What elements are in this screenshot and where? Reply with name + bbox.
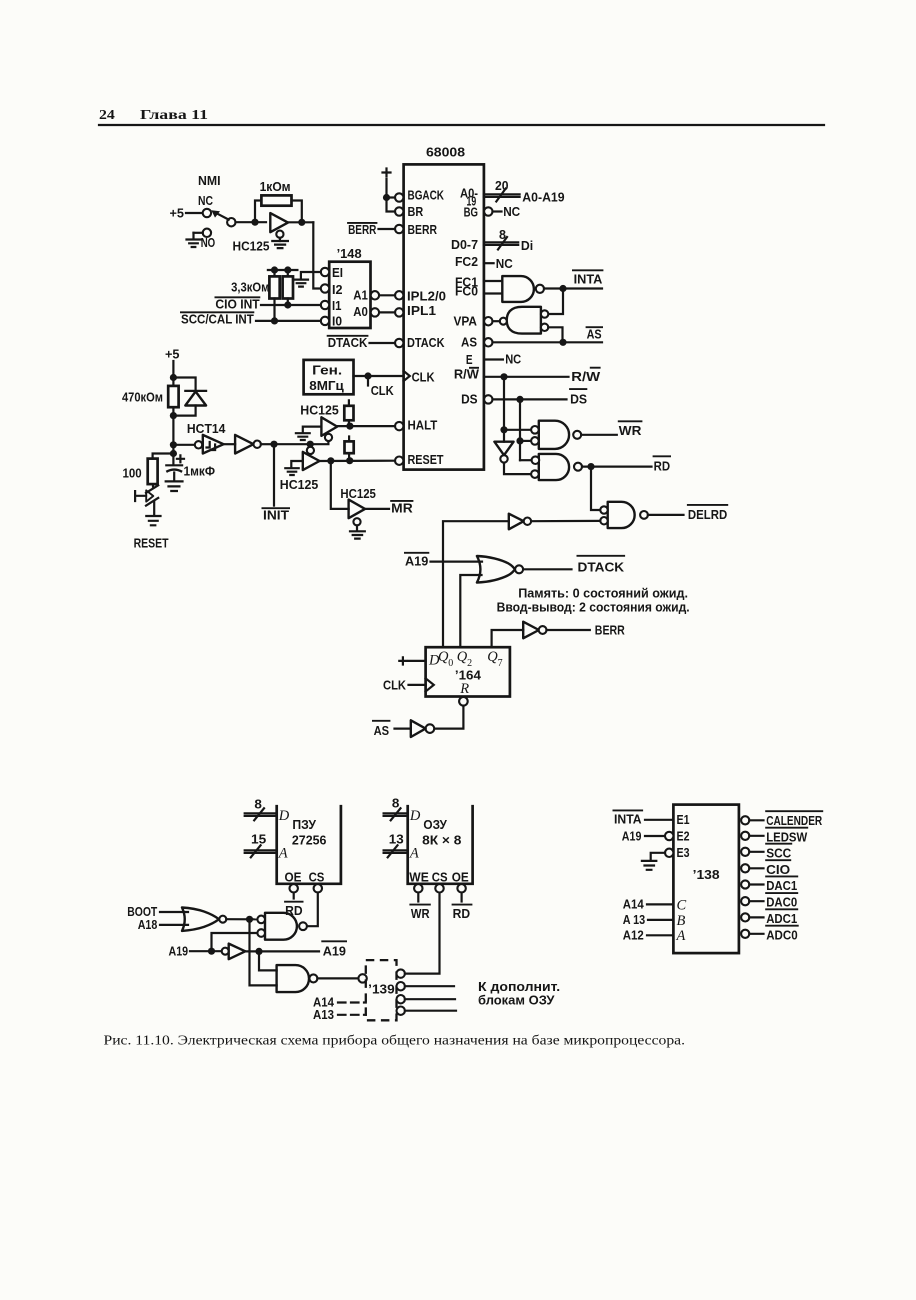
pin DTACK bubble: [395, 339, 403, 347]
svg-text:DS: DS: [461, 391, 478, 406]
svg-text:A18: A18: [138, 917, 158, 932]
node I1/R3: [284, 301, 291, 308]
svg-text:R/W: R/W: [571, 369, 600, 384]
pin HALT bubble: [395, 422, 403, 430]
node A19bar: [255, 948, 262, 955]
wire '139 out4: [405, 1010, 456, 1012]
pin Y5 bubble: [741, 897, 749, 905]
pin DS bubble: [484, 395, 492, 403]
svg-text:+5: +5: [170, 206, 185, 221]
node AS: [559, 339, 566, 346]
U24 output bubble 2: [397, 982, 405, 990]
svg-text:NC: NC: [496, 256, 513, 271]
svg-text:3,3кОм: 3,3кОм: [231, 280, 269, 295]
wire node chain down: [172, 416, 174, 465]
svg-text:E: E: [466, 352, 473, 367]
wire DS: [493, 398, 567, 400]
ground (C1): [166, 481, 183, 491]
resistor R6 leads: [348, 400, 350, 426]
svg-text:WR: WR: [411, 906, 430, 921]
op: CPU U1 68008 body: [404, 164, 484, 469]
node to 100/cap: [170, 450, 177, 457]
svg-text:EI: EI: [332, 265, 343, 280]
svg-text:VPA: VPA: [454, 314, 478, 329]
wire G1 to CLK: [354, 375, 402, 377]
buffer U7 triangle: [303, 452, 320, 470]
pin IPL1 bubble: [395, 308, 403, 316]
resistor R1 1kOm leads: [255, 201, 302, 223]
pin RESET bubble: [395, 457, 403, 465]
resistor R5 100 body: [148, 459, 158, 485]
svg-text:R: R: [459, 681, 469, 697]
svg-text:BG: BG: [464, 204, 478, 219]
svg-text:DTACK: DTACK: [328, 335, 368, 350]
node buffer output: [298, 219, 305, 226]
pin Y4 bubble: [741, 880, 749, 888]
pin WE bubble: [414, 884, 422, 892]
ROM D1 ПЗУ 27256 body (open top): [277, 805, 341, 884]
wire OE stub: [293, 893, 295, 899]
svg-text:WE: WE: [409, 869, 429, 884]
svg-text:CLK: CLK: [412, 369, 435, 384]
buffer U6 input to ground: [303, 427, 322, 433]
diode VD1 cathode bar: [185, 390, 206, 392]
wire FC2-NC: [484, 262, 494, 264]
svg-text:ADC0: ADC0: [766, 927, 798, 942]
wire U6 output to HALT: [337, 425, 395, 427]
node ROM sel: [246, 916, 253, 923]
resistor R3 3,3кОм body: [283, 276, 293, 298]
svg-text:BERR: BERR: [348, 222, 377, 237]
wire Y2: [749, 851, 763, 853]
pin Y6 bubble: [741, 913, 749, 921]
pin I2 bubble: [321, 284, 329, 292]
bus slash (A): [496, 189, 505, 202]
ground (U2 enable): [272, 241, 288, 248]
node R/W to WR gate: [500, 426, 507, 433]
encoder U3 '148 body: [329, 262, 370, 328]
svg-text:15: 15: [251, 832, 266, 847]
U9 output bubble: [536, 285, 544, 293]
svg-text:ОЗУ: ОЗУ: [423, 817, 447, 832]
svg-text:A0-A19: A0-A19: [522, 190, 564, 205]
nand gate U12 (WR): [539, 421, 569, 449]
RAM D2 ОЗУ body (open top): [408, 805, 473, 884]
svg-text:HALT: HALT: [408, 417, 438, 432]
switch SA1 blade with arrow: [215, 212, 229, 219]
wire Q7 to BERR inverter: [492, 630, 524, 647]
U24 output bubble 3: [397, 995, 405, 1003]
wire A19 to inverter: [190, 950, 222, 952]
wire DTACK: [523, 568, 571, 570]
pin Y7 bubble: [741, 930, 749, 938]
wire INTA to E1: [645, 819, 673, 821]
svg-text:’148: ’148: [337, 246, 362, 261]
buffer U8 enable bubble: [353, 518, 360, 525]
svg-text:INTA: INTA: [614, 812, 642, 827]
U17 output bubble: [539, 626, 547, 634]
wire CLK to '164: [409, 684, 426, 686]
pin IPL2/0 bubble: [395, 291, 403, 299]
resistor R2 3,3кОм body: [269, 276, 279, 298]
wire Y3: [749, 867, 763, 869]
ground (NO): [187, 240, 201, 248]
svg-text:BGACK: BGACK: [408, 188, 445, 203]
CLK tick: [367, 376, 369, 386]
capacitor C1 top plate: [166, 464, 182, 466]
node I0/R2: [271, 317, 278, 324]
svg-text:CLK: CLK: [383, 677, 406, 692]
node HALT/R6: [346, 423, 353, 430]
wire enable to ground: [279, 238, 281, 241]
U21 output bubble: [299, 922, 307, 930]
svg-text:DAC1: DAC1: [766, 878, 797, 893]
wire A19bar to U23 top input: [259, 951, 277, 970]
resistor R4 470кОм body: [168, 386, 178, 407]
svg-text:OE: OE: [285, 869, 302, 884]
svg-text:CIO: CIO: [766, 862, 790, 877]
pin Y2 bubble: [741, 848, 749, 856]
node RD: [587, 463, 594, 470]
resistor R7 leads: [348, 437, 350, 461]
wire Y7: [749, 933, 763, 935]
pin Y3 bubble: [741, 864, 749, 872]
pin BERR bubble: [395, 225, 403, 233]
pin OE bubble (RAM): [457, 884, 465, 892]
node CLK: [364, 372, 371, 379]
svg-text:HC125: HC125: [233, 239, 270, 254]
and gate U10 (VPA, mirrored): [507, 307, 541, 334]
svg-text:Память: 0 состояний ожид.: Память: 0 состояний ожид.: [518, 585, 688, 600]
U14 input bubble bottom: [600, 517, 607, 524]
ground (EI): [294, 280, 308, 287]
svg-text:NC: NC: [198, 193, 213, 208]
svg-text:+5: +5: [165, 347, 180, 362]
svg-text:DS: DS: [570, 391, 587, 406]
svg-text:A 13: A 13: [623, 912, 646, 927]
svg-text:1мкФ: 1мкФ: [184, 464, 216, 479]
wire node to R5: [153, 454, 174, 459]
svg-text:CS: CS: [309, 869, 325, 884]
buffer U7 input to ground: [291, 461, 303, 468]
inverter U4 HCT14 input bubble: [195, 441, 202, 448]
U15 output bubble: [524, 518, 531, 525]
bus slash (RAM D): [391, 808, 401, 820]
diode VD1 triangle: [185, 392, 206, 406]
pin VPA bubble: [484, 317, 492, 325]
node DS: [516, 396, 523, 403]
wire INTA: [544, 287, 602, 289]
wire R to AS inverter: [434, 706, 463, 729]
wire +5 down: [172, 361, 174, 386]
wire DS vertical: [519, 399, 521, 460]
wire RD: [582, 466, 652, 468]
capacitor C1 bottom plate: [166, 470, 182, 472]
wire EI to ground: [301, 272, 321, 279]
inverter U4 hysteresis mark: [207, 442, 216, 450]
buffer U6 triangle: [321, 417, 337, 436]
thyristor VS1 cathode: [153, 501, 155, 515]
wire A14 to C: [647, 903, 673, 905]
svg-text:DTACK: DTACK: [578, 560, 625, 575]
U12 input bubble top: [531, 426, 539, 434]
svg-text:AS: AS: [374, 723, 390, 738]
U21 input bubble top: [257, 916, 265, 924]
wire C1 to ground: [173, 473, 175, 481]
pullup rail: [268, 269, 298, 271]
nand gate U13 (RD): [539, 454, 569, 480]
svg-text:A19: A19: [405, 554, 428, 569]
wire + to D: [409, 660, 426, 662]
thyristor VS1 gate lead: [135, 491, 146, 501]
inverter U19 triangle: [411, 720, 426, 737]
U20 output bubble: [219, 916, 226, 923]
wire U20 out to U21: [226, 918, 257, 920]
svg-text:A12: A12: [623, 928, 644, 943]
wire U7 output to RESET: [320, 460, 396, 462]
pin BR bubble: [395, 207, 403, 215]
switch SA1 NC contact: [203, 209, 211, 217]
node rail R2: [271, 266, 278, 273]
svg-text:WR: WR: [619, 423, 642, 438]
wire Y6: [749, 916, 763, 918]
wire E3 to ground: [651, 853, 665, 860]
node MR takeoff: [327, 457, 334, 464]
U10 input bubble bottom: [541, 324, 548, 331]
resistor R6 pullup body: [344, 406, 353, 421]
wire switch common to node: [236, 221, 267, 223]
node BGACK: [383, 194, 390, 201]
svg-text:A1: A1: [353, 287, 368, 302]
shift register U18 '164 body: [426, 647, 510, 696]
wire +5 to NC contact: [186, 212, 203, 214]
wire + to BGACK/BR: [387, 179, 396, 212]
or gate U20 (BOOT+A18): [182, 908, 219, 931]
svg-text:Ввод-вывод: 2 состояния ожид.: Ввод-вывод: 2 состояния ожид.: [497, 599, 690, 614]
svg-text:27256: 27256: [292, 832, 327, 847]
header rule: [99, 124, 824, 126]
pin CLK clock wedge: [404, 371, 410, 381]
svg-text:INTA: INTA: [574, 272, 603, 287]
wire buffer output node: [288, 221, 313, 223]
wire CS to gate: [307, 893, 318, 927]
nand gate U23 (RAM sel): [277, 965, 309, 992]
wire E-NC: [485, 358, 503, 360]
ground (U8): [350, 531, 365, 538]
svg-text:Ген.: Ген.: [312, 362, 342, 377]
svg-text:Рис. 11.10. Электрическая схем: Рис. 11.10. Электрическая схема прибора …: [104, 1033, 686, 1048]
svg-text:NC: NC: [505, 352, 521, 367]
wire Q2 to OR bottom input: [460, 575, 481, 647]
svg-text:OE: OE: [452, 869, 469, 884]
svg-text:HC125: HC125: [280, 477, 319, 492]
svg-text:24: 24: [99, 107, 115, 122]
wire U22 out to A19bar: [245, 950, 319, 952]
wire FC1 to gate: [484, 280, 502, 282]
svg-text:13: 13: [389, 832, 404, 847]
svg-text:A: A: [676, 928, 686, 944]
wire BERR to pin: [379, 228, 396, 230]
U14 output bubble: [640, 511, 648, 519]
svg-text:Di: Di: [521, 238, 533, 253]
switch SA1 common contact: [227, 218, 235, 226]
pin R bubble: [459, 697, 468, 706]
svg-text:E2: E2: [677, 828, 690, 843]
wire U5 output to INIT node: [261, 443, 274, 445]
power + (D input): [399, 657, 406, 664]
svg-text:20: 20: [495, 178, 509, 193]
svg-text:A13: A13: [313, 1007, 334, 1022]
wire DELRD: [648, 514, 684, 516]
svg-text:1кОм: 1кОм: [260, 179, 291, 194]
wire Y1: [749, 835, 763, 837]
svg-text:CLK: CLK: [371, 383, 394, 398]
wire SCC/CAL INT to I0: [256, 320, 321, 322]
svg-text:AS: AS: [587, 326, 602, 341]
wire U11 to RD gate bottom input: [504, 463, 531, 475]
svg-text:I1: I1: [332, 298, 342, 313]
inverter U5 output bubble: [254, 441, 261, 448]
svg-text:’138: ’138: [693, 867, 720, 882]
pin AS bubble: [484, 338, 492, 346]
wire A19 to OR gate: [431, 560, 483, 562]
wire MR branch down: [331, 461, 349, 509]
thyristor VS1 lead: [152, 484, 154, 486]
svg-text:LEDSW: LEDSW: [766, 829, 807, 844]
wire A13 to B: [648, 919, 673, 921]
ground (VS1): [146, 516, 160, 525]
wire U15 output to U14 input: [531, 520, 600, 522]
U10 output bubble: [500, 318, 507, 325]
inverter U22 input bubble: [222, 948, 229, 955]
node below R4: [170, 412, 177, 419]
decoder U25 '138 body: [673, 805, 739, 954]
svg-text:SCC/CAL INT: SCC/CAL INT: [181, 311, 254, 326]
svg-text:D: D: [278, 808, 290, 824]
svg-text:Глава 11: Глава 11: [140, 107, 208, 122]
svg-text:IPL1: IPL1: [407, 303, 436, 318]
wire U4 to U5: [224, 443, 236, 445]
pin EI bubble: [321, 268, 329, 276]
svg-text:NMI: NMI: [198, 173, 221, 188]
node DS to WR gate: [516, 437, 523, 444]
svg-text:470кОм: 470кОм: [122, 389, 163, 404]
U12 input bubble bottom: [531, 437, 539, 445]
svg-text:RD: RD: [453, 906, 471, 921]
wire '139 out3: [405, 998, 455, 1000]
pin BGACK bubble: [395, 193, 403, 201]
ground (E3): [642, 861, 656, 870]
node INIT: [270, 441, 277, 448]
svg-text:CALENDER: CALENDER: [766, 813, 822, 828]
svg-text:8МГц: 8МГц: [309, 378, 344, 393]
svg-text:A19: A19: [169, 944, 189, 959]
svg-text:B: B: [677, 913, 686, 929]
ground (U7 input): [285, 468, 298, 475]
svg-text:I2: I2: [332, 282, 343, 297]
svg-text:100: 100: [123, 465, 142, 480]
wire node to WR top input: [504, 429, 531, 431]
svg-text:FC2: FC2: [455, 254, 478, 269]
inverter U22 triangle: [229, 944, 246, 960]
wire DTACK to pin: [370, 342, 396, 344]
svg-text:ПЗУ: ПЗУ: [292, 817, 316, 832]
svg-text:FC0: FC0: [455, 283, 478, 298]
wire U21 bottom input to A19 node: [212, 933, 258, 951]
wire CIO INT to I1: [261, 304, 321, 306]
wire A18 input: [160, 924, 188, 926]
svg-text:’139: ’139: [368, 981, 395, 996]
dashed wire A14: [338, 1001, 366, 1003]
wire A19 to E2: [645, 835, 665, 837]
buffer U8 triangle: [349, 500, 365, 519]
buffer U2 enable bubble: [276, 231, 283, 238]
inverter U17 triangle: [523, 622, 539, 639]
wire Y5: [749, 900, 763, 902]
switch SA1 NO contact: [203, 229, 211, 237]
wire WR: [581, 434, 617, 436]
svg-text:IPL2/0: IPL2/0: [407, 289, 446, 304]
resistor R4 bottom lead: [172, 407, 174, 415]
U13 output bubble: [574, 463, 582, 471]
svg-text:RD: RD: [654, 458, 671, 473]
svg-text:MR: MR: [391, 500, 413, 515]
nand gate U9 (INTA): [502, 276, 534, 302]
wire A0 to IPL1: [379, 311, 395, 313]
svg-text:8К × 8: 8К × 8: [422, 833, 461, 848]
svg-text:RESET: RESET: [134, 535, 169, 550]
node INIT/enable2: [307, 441, 314, 448]
svg-text:DAC0: DAC0: [766, 895, 797, 910]
U16 output bubble: [515, 565, 523, 573]
U23 output bubble: [309, 974, 317, 982]
svg-text:BERR: BERR: [408, 222, 438, 237]
inverter U11 (R/W) triangle down: [494, 442, 513, 456]
svg-text:CS: CS: [432, 869, 448, 884]
node R/W: [500, 373, 507, 380]
wire DS to RD top input: [520, 459, 532, 461]
thyristor VS1 symbol: [146, 485, 158, 493]
pin BG bubble: [484, 207, 492, 215]
oscillator G1 box: [304, 360, 354, 394]
wire BERR out: [547, 629, 590, 631]
dashed wire A13: [338, 1014, 366, 1016]
svg-text:8: 8: [254, 797, 262, 812]
decoder U24 '139 dashed body: [366, 960, 397, 1020]
node RESET/R7: [346, 457, 353, 464]
resistor R3 leads: [287, 270, 289, 305]
pin E2 bubble: [665, 832, 673, 840]
bus D (RAM): [384, 813, 408, 816]
bus slash (D): [498, 237, 507, 250]
capacitor C1 plus sign: [177, 455, 184, 462]
pin I1 bubble: [321, 301, 329, 309]
node to HCT14: [170, 441, 177, 448]
pin Y0 bubble: [741, 816, 749, 824]
svg-text:NO: NO: [201, 235, 216, 250]
svg-text:A: A: [409, 845, 419, 861]
wire A12 to A: [647, 934, 673, 936]
wire FC0 to gate: [484, 292, 502, 294]
wire INTA to VPA gate top input: [548, 289, 563, 315]
svg-text:RESET: RESET: [408, 452, 444, 467]
svg-text:AS: AS: [461, 335, 477, 350]
wire R/W: [484, 376, 569, 378]
svg-text:A19: A19: [323, 943, 346, 958]
svg-text:C: C: [677, 898, 687, 914]
resistor R2 leads: [273, 270, 275, 321]
svg-text:DTACK: DTACK: [407, 335, 445, 350]
